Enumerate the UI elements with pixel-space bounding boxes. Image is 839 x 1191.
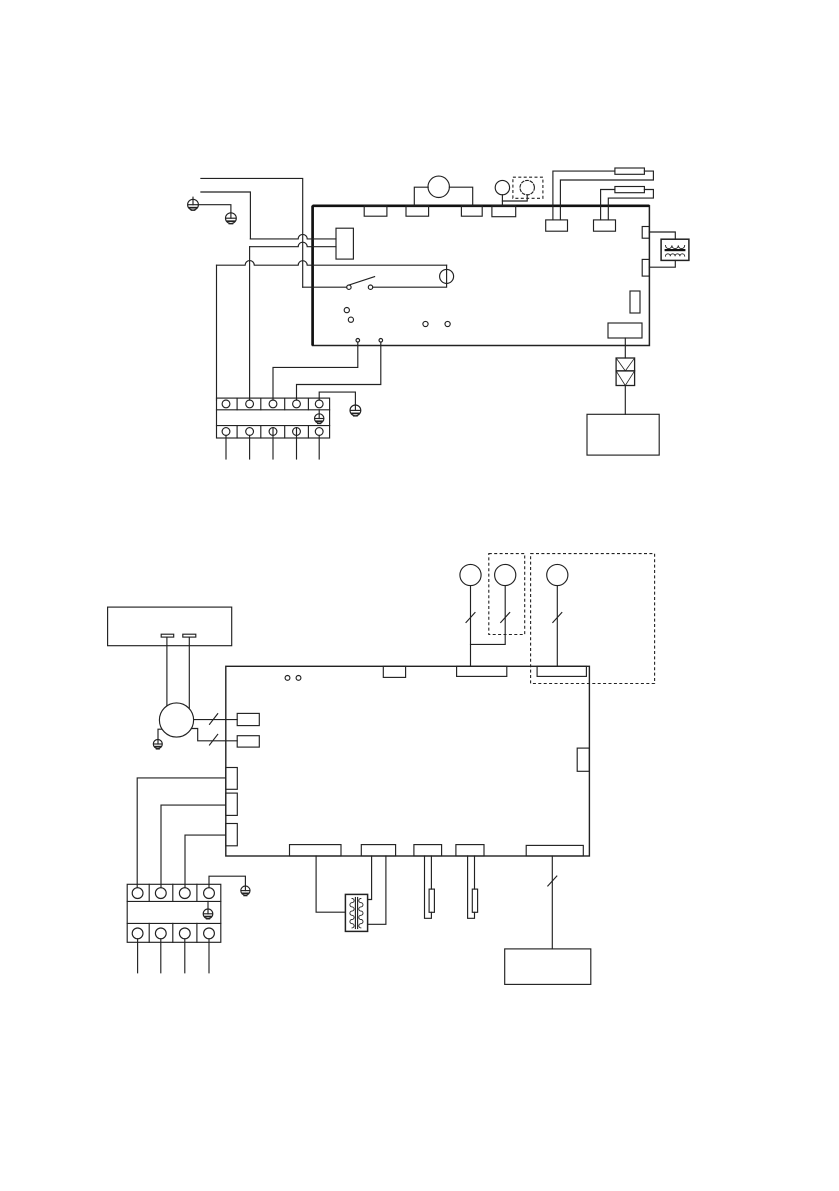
wire sensor A to T2 xyxy=(470,586,472,667)
wire terminal1 riser with two hops, to lamp loop xyxy=(217,261,447,266)
wire EB2 bar2 to motor xyxy=(188,637,190,708)
connector break slash on motor lead 1 xyxy=(210,714,218,725)
connector LR2 on left edge xyxy=(226,793,238,815)
connector B4 on bottom edge xyxy=(456,845,484,856)
connector T2 on top edge xyxy=(457,666,507,676)
wire P1 to terminal3 xyxy=(273,342,358,400)
sensor circle A xyxy=(460,564,481,585)
wire TB1 pigtail 3 xyxy=(272,435,274,459)
wire supply line B (second horizontal, turns down) xyxy=(201,192,251,239)
dashed option box large (around sensor C) xyxy=(531,554,655,684)
wire B5 to external unit EB3 xyxy=(551,856,553,949)
transformer TR1 xyxy=(661,239,689,260)
dashed option box small (around sensor B) xyxy=(489,554,525,635)
connector break slash on sensor C wire xyxy=(553,613,562,623)
connector LR1 on left edge xyxy=(226,768,238,790)
connector B3 on bottom edge xyxy=(414,845,442,856)
terminal TB2 screws top row xyxy=(132,888,214,899)
wire supply line A (top horizontal, turns down to switch) xyxy=(201,178,303,287)
connector RE on right edge xyxy=(577,748,589,771)
wire TB1 pigtail 1 xyxy=(225,435,227,459)
connector break slash on sensor B wire xyxy=(501,613,510,623)
ground G5 (motor frame) xyxy=(153,739,162,749)
connector break slash on B5 wire xyxy=(548,876,557,886)
wire TB1 pigtail 2 xyxy=(249,435,251,459)
connector LR3 on left edge xyxy=(226,824,238,846)
connector break slash on sensor A wire xyxy=(466,613,475,623)
PCB2 board outline xyxy=(226,666,590,856)
wire LR2 to terminal 2 xyxy=(161,805,226,888)
wire B4 thermistor loop xyxy=(468,856,475,918)
wire RB2 return to CB pin2 xyxy=(608,190,653,220)
wire TB2 pigtail 1 xyxy=(137,939,139,973)
wire B2 pin1 to TR2 xyxy=(368,856,372,900)
wire B2 pin2 to TR2 xyxy=(368,856,386,924)
wire motor lead 1 xyxy=(194,719,238,721)
connector R1 on right edge xyxy=(642,227,649,239)
wire lamp loop right side xyxy=(373,265,447,287)
wire sensor C to T3 xyxy=(556,586,558,667)
terminal strip TB1 outline xyxy=(217,398,330,438)
switch blade xyxy=(350,277,375,285)
earth symbol in TB2 column 4 xyxy=(203,901,213,919)
wire TB2 pigtail 2 xyxy=(160,939,162,973)
connector C2 on top edge xyxy=(406,206,429,216)
component box CB1 (noise filter) xyxy=(336,228,353,259)
sensor circle S1 xyxy=(495,180,509,194)
wire TB1 pigtail 4 xyxy=(296,435,298,459)
wire CB pin1 to heater RB2 xyxy=(601,190,615,220)
thermistor TH1 xyxy=(429,889,434,912)
wire ground link G1-G2 xyxy=(198,205,231,213)
wire RB1 return to CA pin2 xyxy=(560,171,653,220)
ground G3 xyxy=(350,405,361,416)
wire terminal2 vertical xyxy=(249,247,251,400)
connector C1 on top edge xyxy=(364,206,387,216)
connector T1 on top edge xyxy=(383,666,405,677)
wire terminal1 vertical xyxy=(216,265,218,400)
wire TB1 terminal5 to external ground xyxy=(319,392,355,405)
wire fan motor left lead xyxy=(414,187,428,206)
connector B2 on bottom edge xyxy=(361,845,395,856)
wire R1 to transformer primary xyxy=(649,232,675,239)
transformer TR2 xyxy=(345,894,367,931)
switch left contact xyxy=(347,285,351,289)
lamp circle xyxy=(440,269,454,283)
earth symbol in TB1 column 5 xyxy=(315,410,324,424)
wire TB2 terminal4 to external ground xyxy=(209,876,245,887)
wire B3 thermistor loop xyxy=(425,856,432,918)
EB2 terminal bar 2 xyxy=(183,634,196,637)
wire arrester to external box EB1 xyxy=(624,386,626,415)
wire S2 lead xyxy=(502,195,527,201)
component tall rect near right edge xyxy=(630,291,640,313)
terminal TB2 screws bottom row xyxy=(132,928,214,939)
test point circle TP4 xyxy=(445,321,450,326)
pad circle Q2 xyxy=(296,676,301,681)
wire LR1 to terminal 1 xyxy=(137,778,226,888)
dashed option box D1 xyxy=(513,177,543,198)
terminal strip TB2 outline xyxy=(127,884,221,942)
ground G1 xyxy=(188,197,199,210)
wire line B into CB1 pin1 (hop over vertical) xyxy=(250,234,336,239)
surge arrester (two stacked cells) xyxy=(616,358,635,386)
connector MC2 xyxy=(237,736,259,747)
wire terminal2 riser to CB1 pin2 (hop over vertical) xyxy=(250,242,336,246)
wire CC to arrester xyxy=(624,338,626,358)
connector B1 on bottom edge xyxy=(290,845,342,856)
wire switch to left edge xyxy=(303,286,347,288)
wire R2 to transformer secondary xyxy=(649,260,675,267)
external unit box EB3 xyxy=(505,949,591,985)
switch right contact xyxy=(368,285,372,289)
motor M circle xyxy=(159,703,193,737)
fan motor circle xyxy=(428,176,449,197)
ground G2 xyxy=(226,213,237,224)
wire B1 to transformer TR2 primary xyxy=(316,856,345,912)
heater element RB2 xyxy=(615,187,645,193)
external control box EB2 xyxy=(108,607,232,646)
pad circle Q1 xyxy=(285,676,290,681)
terminal TB1 screws top row xyxy=(222,400,323,408)
pad circle P2 on bottom edge xyxy=(379,339,383,343)
ground G4 xyxy=(241,886,250,896)
pad circle P1 on bottom edge xyxy=(356,339,360,343)
connector C4 on top edge xyxy=(492,206,516,217)
wire fan motor right lead xyxy=(449,187,472,206)
connector CB xyxy=(594,220,616,231)
wire P2 to terminal4 xyxy=(297,342,381,400)
sensor circle C xyxy=(547,564,568,585)
wire LR3 to terminal 3 xyxy=(185,835,226,888)
thermistor TH2 xyxy=(472,889,477,912)
heater element RB1 xyxy=(615,168,645,174)
wire motor to ground xyxy=(158,729,162,739)
EB2 terminal bar 1 xyxy=(161,634,174,637)
connector CC bottom right xyxy=(608,323,642,338)
test point circle TP1 xyxy=(344,308,349,313)
sensor circle B xyxy=(495,564,516,585)
sensor circle S2 (dashed) xyxy=(520,180,534,194)
wire motor lead 2 xyxy=(191,729,237,741)
test point circle TP2 xyxy=(348,317,353,322)
wire EB2 bar1 to motor xyxy=(166,637,168,706)
PCB1 board outline xyxy=(313,206,650,346)
wire sensor B joins A xyxy=(471,586,506,645)
wire TB1 pigtail 5 xyxy=(318,435,320,459)
connector T3 on top edge xyxy=(537,666,586,676)
terminal TB1 screws bottom row xyxy=(222,428,323,436)
connector MC1 xyxy=(237,713,259,725)
wire S1 lead xyxy=(501,195,503,206)
test point circle TP3 xyxy=(423,321,428,326)
connector B5 on bottom edge xyxy=(526,845,583,856)
external unit box EB1 xyxy=(587,414,659,455)
connector break slash on motor lead 2 xyxy=(210,734,218,745)
connector CA xyxy=(546,220,568,231)
connector R2 on right edge xyxy=(642,259,649,276)
wire TB2 pigtail 3 xyxy=(184,939,186,973)
connector C3 on top edge xyxy=(461,206,482,216)
wire CA pin1 to heater RB1 xyxy=(553,171,615,220)
wire TB2 pigtail 4 xyxy=(208,939,210,973)
